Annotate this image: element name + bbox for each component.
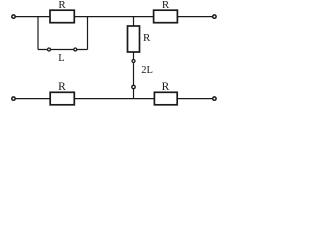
svg-text:R: R [143,32,151,44]
wire top rail right [178,16,213,18]
inductor 2L terminal circle top [132,60,135,63]
wire middle branch top [133,17,135,26]
wire bottom rail left [15,98,50,100]
resistor R5 bottom-right box [154,92,177,105]
wire L-branch left vertical [37,17,39,50]
svg-text:R: R [162,0,170,11]
resistor R4 bottom-left box [50,92,74,105]
inductor L terminal circle left [48,48,51,51]
resistor R3 middle vertical box [128,26,140,52]
wire top rail middle [74,16,153,18]
inductor L terminal circle right [74,48,77,51]
svg-text:R: R [58,0,66,11]
inductor 2L terminal circle bottom [132,85,135,88]
terminal bottom-left [12,97,15,100]
terminal top-right [213,15,216,18]
wire bottom rail middle [74,98,154,100]
wire bottom rail right [177,98,213,100]
resistor R1 top-left box [50,10,74,23]
terminal bottom-right [213,97,216,100]
wire middle branch lower [133,52,135,99]
svg-text:R: R [162,81,170,93]
terminal top-left [12,15,15,18]
svg-text:L: L [58,53,64,64]
wire top rail left [15,16,50,18]
wire L-branch horizontal [38,49,88,51]
wire L-branch right vertical [87,17,89,50]
svg-text:2L: 2L [141,65,153,76]
svg-text:R: R [58,81,66,93]
resistor R2 top-right box [154,10,178,23]
